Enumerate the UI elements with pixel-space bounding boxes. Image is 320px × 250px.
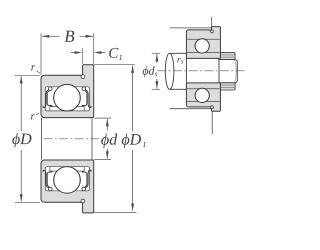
ball	[195, 88, 209, 102]
B label	[64, 31, 74, 42]
r label bore-left	[31, 114, 35, 119]
shaft shoulder face	[185, 53, 187, 89]
centerline right view	[158, 70, 247, 72]
C1 extension line	[81, 48, 83, 63]
outer+inner ring upper half	[41, 65, 94, 118]
cavity lines	[187, 88, 220, 90]
phiD1 label	[122, 134, 146, 149]
phi ds extension ticks	[152, 52, 160, 54]
bearing lower half	[186, 83, 220, 111]
sleeve bottom stripes	[219, 84, 235, 86]
phiD label	[12, 133, 31, 148]
phi ds dimension line	[156, 54, 158, 63]
phiD dimension line	[20, 76, 22, 131]
rs label	[177, 58, 183, 64]
bore side walls	[40, 118, 42, 160]
housing top	[170, 17, 212, 28]
phid label	[101, 134, 117, 149]
flange relief notch	[211, 106, 214, 109]
B extension lines	[40, 33, 42, 75]
shaft end (right, through bore)	[219, 59, 237, 82]
C1 label	[109, 48, 122, 60]
cage arcs	[194, 93, 197, 98]
centerline left view	[44, 138, 101, 140]
bearing upper half	[186, 27, 220, 59]
outer+inner ring lower half (mirror)	[41, 160, 94, 213]
B dimension line + arrows	[42, 35, 60, 37]
phid dimension	[94, 117, 111, 119]
phiD1 dimension line	[132, 66, 134, 132]
shaft end chamfer arc	[234, 60, 236, 83]
spacer sleeve top	[219, 53, 235, 60]
sleeve top stripes	[219, 54, 235, 56]
housing bottom	[170, 109, 212, 134]
phiD extension lines	[15, 74, 40, 76]
phiD1 extension lines	[94, 64, 135, 66]
spacer sleeve bottom	[219, 83, 235, 90]
phi ds label	[143, 66, 158, 77]
r label top-left	[31, 65, 35, 70]
C1 dimension arrows	[71, 52, 77, 54]
shaft body	[165, 53, 174, 89]
